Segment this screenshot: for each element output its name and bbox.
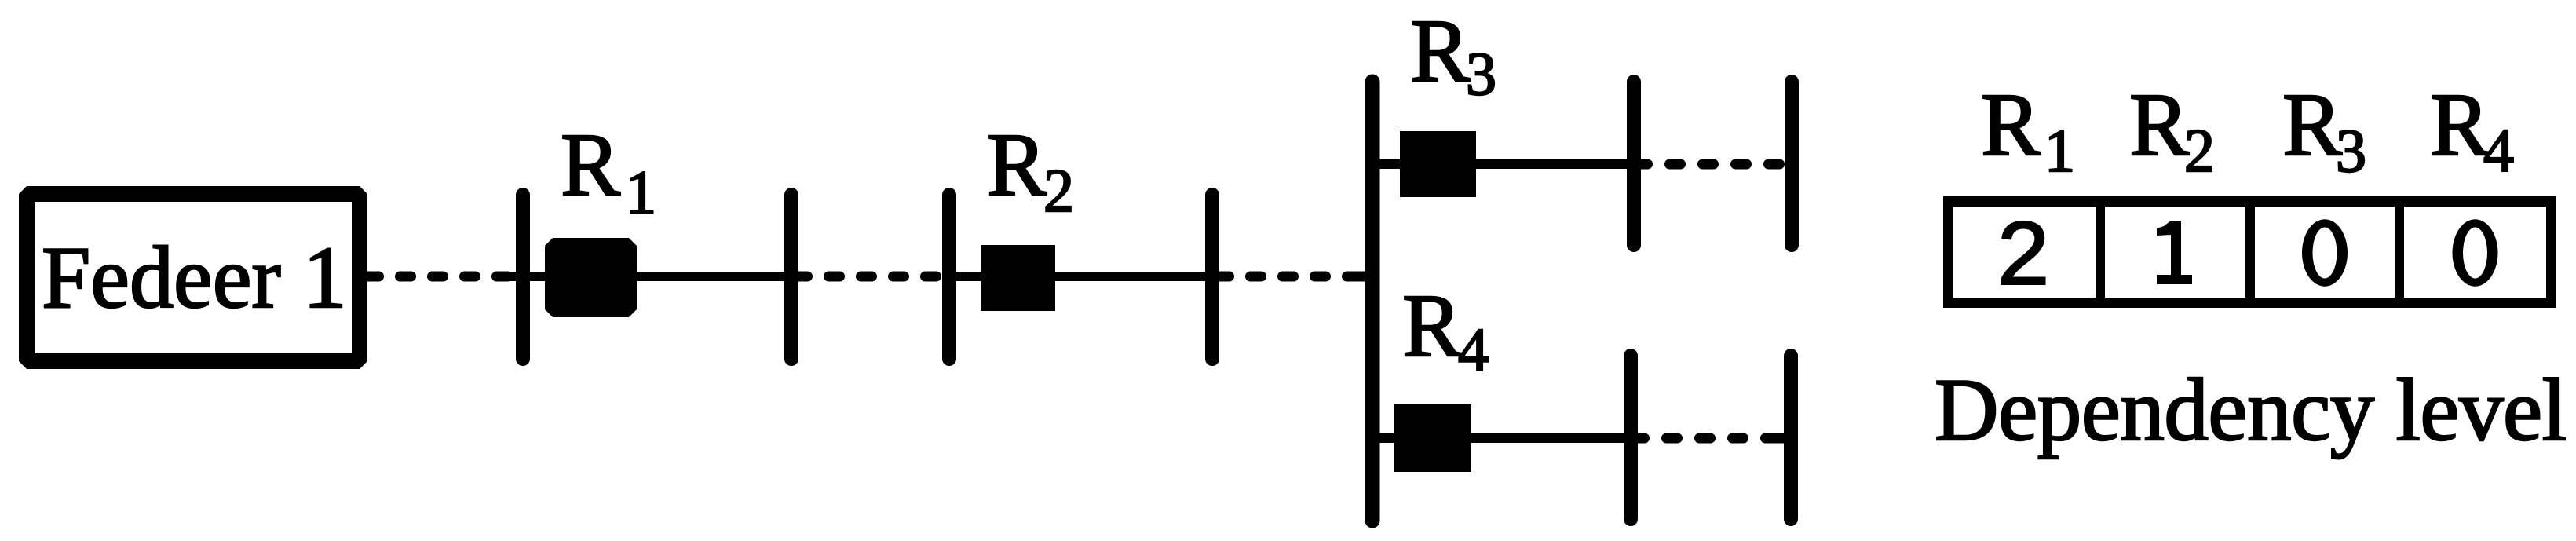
svg-text:R: R [1410,1,1470,101]
svg-text:3: 3 [2336,116,2366,185]
feeder box "Fedeer 1" [27,194,360,361]
svg-text:3: 3 [1466,39,1496,108]
wire: R2 to bus B4 [1052,272,1212,281]
svg-text:Dependency level: Dependency level [1935,361,2567,459]
svg-text:4: 4 [1458,316,1489,384]
recloser R1 (chamfered square) [545,238,637,317]
svg-text:4: 4 [2483,116,2514,185]
dependency value 0 (R3) [2302,219,2348,286]
tall bus B5 (branch node) [1365,82,1380,521]
wire stub: dash merge into bus B5 [1357,272,1372,282]
bus B2 [784,195,798,359]
wire: bus B3 to recloser R2 [949,272,985,281]
svg-text:1: 1 [626,158,656,226]
wire dashed: bus B2 to bus B3 [798,272,942,282]
recloser R3 (square) [1400,131,1476,197]
dependency table divider 3 [2395,196,2404,308]
bus B7 [1785,82,1799,245]
svg-text:R: R [987,115,1047,214]
bus B1 [516,195,530,359]
dependency table divider 2 [2245,196,2255,308]
dependency value 0 (R4) [2453,219,2498,286]
wire dashed: bus B4 to tall bus B5 [1220,272,1367,282]
svg-text:1: 1 [2044,116,2075,185]
svg-text:Fedeer 1: Fedeer 1 [42,229,347,327]
bus B4 [1205,195,1219,359]
svg-text:2: 2 [1995,207,2052,313]
wire: R4 to bus B8 [1468,433,1631,443]
wire: R1 to bus B2 [632,272,791,281]
svg-text:R: R [2430,75,2490,174]
dependency table outer frame [1949,202,2552,303]
svg-text:R: R [561,115,620,214]
bus B6 [1627,82,1641,245]
svg-text:2: 2 [1043,156,1074,225]
wire dashed: feeder to bus B1 [367,272,516,282]
svg-text:R: R [2129,75,2189,174]
dependency table divider 1 [2096,196,2105,308]
wire: bus B5 to recloser R3 (top branch) [1372,159,1405,169]
bus B8 [1624,356,1638,519]
bus B9 [1784,356,1798,519]
recloser R4 (square) [1394,404,1471,472]
wire: R3 to bus B6 [1473,159,1634,169]
svg-text:2: 2 [2184,116,2215,185]
bus B3 [942,195,956,359]
dependency value 1 (R2) [2157,221,2192,284]
svg-text:R: R [1981,75,2041,174]
wire stub: dash merge into bus B9 [1776,433,1791,444]
recloser R2 (square) [981,245,1055,311]
wire dashed: bus B8 to bus B9 [1638,433,1787,444]
svg-text:R: R [1402,276,1462,375]
wire: bus B5 to recloser R4 (bottom branch) [1372,433,1400,443]
svg-text:R: R [2282,75,2342,174]
wire: bus B1 to recloser R1 [509,272,550,281]
wire dashed: bus B6 to bus B7 [1641,159,1790,170]
